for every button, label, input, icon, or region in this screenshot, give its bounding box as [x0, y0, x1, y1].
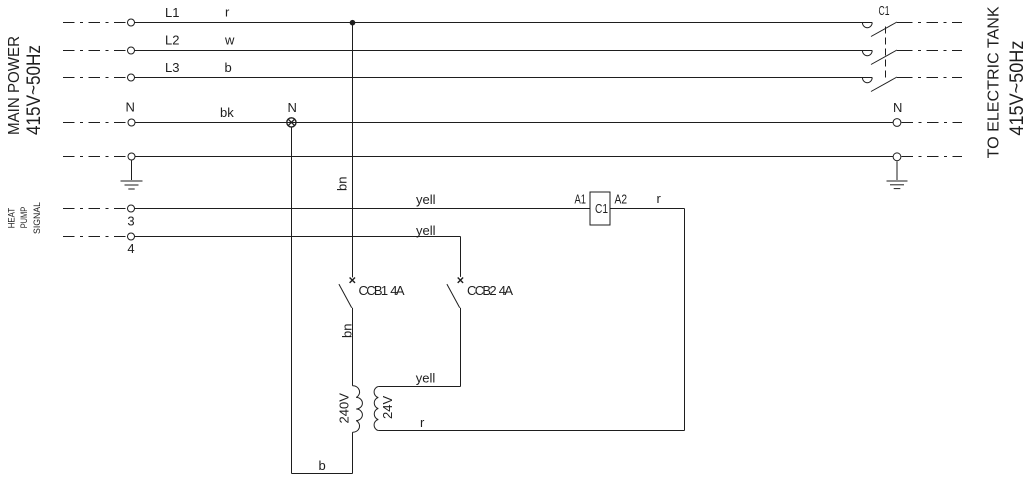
svg-text:PUMP: PUMP — [19, 207, 29, 229]
wire earth left dash-dot — [63, 156, 128, 158]
svg-text:415V~50Hz: 415V~50Hz — [1007, 41, 1028, 136]
svg-text:24V: 24V — [380, 396, 395, 419]
svg-text:MAIN POWER: MAIN POWER — [6, 36, 23, 135]
wire A2 to right corner — [610, 208, 685, 210]
contactor C1 main contact L2 — [862, 50, 901, 65]
wire L1 — [135, 22, 873, 24]
wire N right dash-dot — [902, 122, 963, 124]
ground left — [121, 161, 143, 190]
wire right vertical r — [684, 209, 686, 431]
title heat pump signal — [7, 202, 42, 234]
svg-text:b: b — [319, 458, 326, 473]
breaker CCB2 — [447, 278, 463, 308]
svg-text:r: r — [420, 415, 425, 430]
contactor C1 main contact L3 — [862, 77, 901, 92]
svg-text:N: N — [288, 100, 297, 115]
wire earth — [135, 156, 893, 158]
wire L3 right dash-dot — [901, 77, 962, 79]
svg-text:TO ELECTRIC TANK: TO ELECTRIC TANK — [986, 6, 1003, 158]
wire earth right dash-dot — [902, 156, 963, 158]
terminal L1 — [128, 19, 135, 26]
svg-text:C1: C1 — [879, 3, 890, 18]
breaker CCB1 — [339, 278, 355, 308]
wire L3 left dash-dot — [63, 77, 128, 79]
wire HP4 left dash-dot — [63, 236, 127, 238]
svg-text:L2: L2 — [165, 33, 179, 48]
svg-text:A1: A1 — [575, 192, 587, 207]
wire CCB2 out vertical — [460, 308, 462, 387]
svg-text:240V: 240V — [337, 393, 352, 424]
title to electric tank — [986, 6, 1029, 158]
wire bn vertical from L1 — [352, 23, 354, 278]
wire yell secondary top — [378, 386, 460, 388]
svg-text:N: N — [126, 100, 135, 115]
wire bottom b horizontal — [292, 473, 353, 475]
terminal N left — [128, 119, 135, 126]
ground right — [887, 161, 908, 188]
transformer T1 primary winding — [353, 386, 363, 432]
wire node N vertical — [291, 127, 293, 474]
svg-text:CCB2 4A: CCB2 4A — [467, 283, 513, 298]
svg-text:HEAT: HEAT — [7, 207, 17, 228]
svg-text:SIGNAL: SIGNAL — [32, 202, 42, 234]
contactor C1 coil box — [590, 192, 610, 225]
terminal earth left — [128, 153, 135, 160]
svg-text:w: w — [224, 33, 235, 48]
svg-text:4: 4 — [127, 241, 134, 256]
svg-text:r: r — [225, 5, 230, 20]
wire CCB1 out vertical — [352, 308, 354, 386]
svg-text:C1: C1 — [595, 201, 608, 216]
svg-text:N: N — [893, 100, 902, 115]
transformer T1 secondary winding — [374, 387, 378, 431]
wire HP4 — [135, 236, 461, 238]
terminal 4 — [128, 233, 135, 240]
svg-text:r: r — [657, 191, 662, 206]
wire L1 left dash-dot — [63, 22, 128, 24]
svg-text:yell: yell — [416, 371, 436, 386]
wire L2 left dash-dot — [63, 50, 128, 52]
wire HP4 down vertical to CCB2 — [460, 237, 462, 277]
junction dot L1 — [350, 20, 356, 26]
contactor C1 main contact L1 — [862, 22, 901, 37]
svg-text:415V~50Hz: 415V~50Hz — [24, 45, 45, 135]
svg-text:L3: L3 — [165, 60, 179, 75]
contactor C1 linkage dashed — [885, 27, 887, 81]
svg-text:bn: bn — [335, 177, 350, 191]
wire L2 — [135, 50, 873, 52]
svg-text:yell: yell — [416, 223, 436, 238]
node N junction circle-X — [287, 118, 296, 127]
svg-text:A2: A2 — [615, 192, 628, 207]
wire L2 right dash-dot — [901, 50, 962, 52]
terminal N right — [893, 119, 901, 127]
wire L1 right dash-dot — [901, 22, 962, 24]
wire r secondary bottom — [378, 430, 684, 432]
svg-text:CCB1 4A: CCB1 4A — [359, 283, 405, 298]
terminal L3 — [128, 74, 135, 81]
wire HP3 left dash-dot — [63, 208, 127, 210]
wire N — [135, 122, 893, 124]
wire primary bottom vertical — [352, 432, 354, 473]
terminal 3 — [128, 205, 135, 212]
terminal L2 — [128, 47, 135, 54]
svg-text:3: 3 — [127, 214, 134, 229]
title main power — [6, 36, 45, 135]
svg-text:yell: yell — [416, 192, 436, 207]
svg-text:bn: bn — [339, 324, 354, 338]
svg-text:bk: bk — [220, 105, 234, 120]
svg-text:L1: L1 — [165, 5, 179, 20]
wire L3 — [135, 77, 873, 79]
svg-text:b: b — [225, 60, 232, 75]
wire HP3 to coil A1 — [135, 208, 591, 210]
wire N left dash-dot — [63, 122, 128, 124]
terminal earth right — [893, 153, 901, 161]
